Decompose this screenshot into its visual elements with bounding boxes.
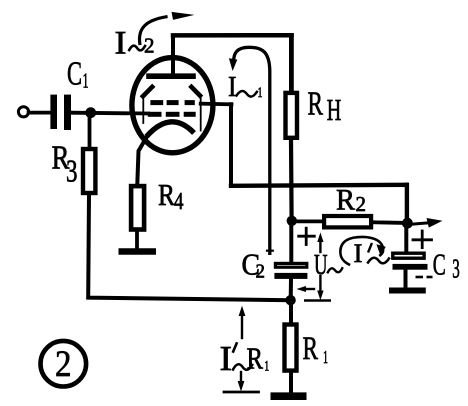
label I' in oval [354, 239, 390, 268]
node B dot [285, 295, 295, 305]
tube U1 envelope [132, 58, 213, 153]
voltage arrow up at R1 [239, 306, 246, 338]
capacitor C3 minus plate [393, 264, 428, 270]
resistor R4 [131, 186, 144, 229]
resistor RH [286, 93, 298, 138]
minus dash C3 [416, 276, 433, 279]
svg-text:R: R [336, 184, 355, 217]
tube cathode lead [137, 137, 147, 185]
svg-text:2: 2 [356, 192, 367, 216]
current oval arrow I' [340, 237, 385, 265]
label I'~R1 [220, 339, 270, 378]
resistor R2 [324, 216, 371, 227]
svg-text:R: R [158, 177, 175, 212]
label C1 [67, 56, 89, 93]
svg-text:R: R [308, 86, 324, 123]
svg-text:C: C [67, 56, 82, 93]
input terminal [18, 107, 28, 117]
svg-text:2: 2 [55, 344, 72, 385]
wire node A to C2 [289, 222, 293, 262]
tube beam plate left [141, 85, 154, 98]
svg-text:H: H [327, 92, 342, 127]
svg-text:C: C [433, 247, 446, 282]
wire R3 down and right to node B [88, 195, 290, 300]
svg-text:I: I [220, 339, 233, 378]
wire R1 to ground [289, 373, 293, 393]
svg-text:3: 3 [66, 153, 78, 189]
tube anode lead [171, 36, 175, 74]
wire input to C1 [29, 111, 50, 115]
minus tick under U arrow [305, 299, 329, 302]
label RH [308, 86, 342, 128]
svg-text:1: 1 [264, 358, 269, 374]
wire anode top [173, 33, 292, 38]
tube beam plate left leg [142, 98, 144, 123]
wire C1 to grid [71, 111, 148, 116]
resistor R1 [285, 325, 297, 371]
ground under R1 [274, 392, 302, 400]
label R2 [336, 184, 366, 217]
node junction input [85, 107, 96, 118]
label R1 [303, 331, 329, 367]
ground under C3 [392, 288, 423, 294]
tick under voltage arrow [224, 391, 259, 394]
resistor R3 [83, 149, 95, 193]
wire RH to node A [289, 140, 294, 219]
node A dot [287, 216, 297, 226]
wire R2 to node C [373, 220, 405, 224]
output arrow [411, 218, 443, 228]
small left arrow [296, 286, 314, 292]
label U~ [314, 249, 342, 281]
tube control grid dashes [148, 112, 196, 117]
label I~2 [115, 26, 155, 62]
svg-text:4: 4 [174, 189, 184, 215]
svg-text:1: 1 [83, 69, 89, 93]
figure number circle 2 [41, 341, 87, 387]
label C2 [242, 247, 266, 283]
wire screen feedback down [229, 104, 233, 186]
tube cathode arc [147, 122, 195, 137]
voltage arrow down at R1 [238, 372, 245, 392]
capacitor C2 minus plate [274, 273, 307, 279]
current arrow I2 (curved) [139, 12, 194, 44]
node C dot [402, 218, 413, 229]
current loop arrow I1 [229, 47, 273, 253]
svg-text:2: 2 [144, 34, 155, 58]
svg-text:1: 1 [323, 347, 328, 367]
svg-text:3: 3 [452, 254, 460, 284]
wire node C to C3 [404, 225, 408, 252]
wire C2 to node B [289, 279, 293, 300]
label R4 [158, 177, 184, 215]
svg-text:1: 1 [258, 85, 263, 101]
tube beam plate right [190, 85, 202, 97]
U arrow down [317, 276, 323, 300]
tube beam plate right leg [200, 97, 202, 131]
svg-text:I: I [228, 72, 237, 103]
label I~1 [228, 72, 263, 103]
wire feedback horizontal [231, 185, 406, 186]
svg-text:R: R [303, 331, 319, 367]
capacitor C3 plus plate [393, 253, 424, 258]
svg-text:R: R [247, 341, 264, 376]
tube screen grid dashes [150, 100, 194, 105]
label R3 [52, 140, 78, 189]
svg-text:I: I [354, 239, 363, 268]
svg-text:2: 2 [256, 261, 266, 283]
wire feedback drop to node C [405, 185, 409, 221]
wire R4 to ground [135, 232, 139, 249]
capacitor C1 [50, 95, 71, 130]
wire node B to R1 [289, 300, 293, 323]
tube anode bar [146, 73, 196, 79]
svg-text:I: I [115, 26, 127, 62]
wire C3 to ground [404, 270, 408, 288]
tube screen lead [201, 102, 232, 107]
label C3 [433, 247, 460, 284]
plus sign C2 [299, 228, 315, 244]
U arrow up [317, 232, 323, 252]
plus sign C3 [413, 231, 432, 248]
wire node A to R2 [294, 219, 322, 223]
wire top right drop [289, 36, 294, 92]
ground under R4 [122, 248, 153, 255]
capacitor C2 plus plate [275, 263, 306, 267]
wire node to R3 [88, 114, 92, 148]
